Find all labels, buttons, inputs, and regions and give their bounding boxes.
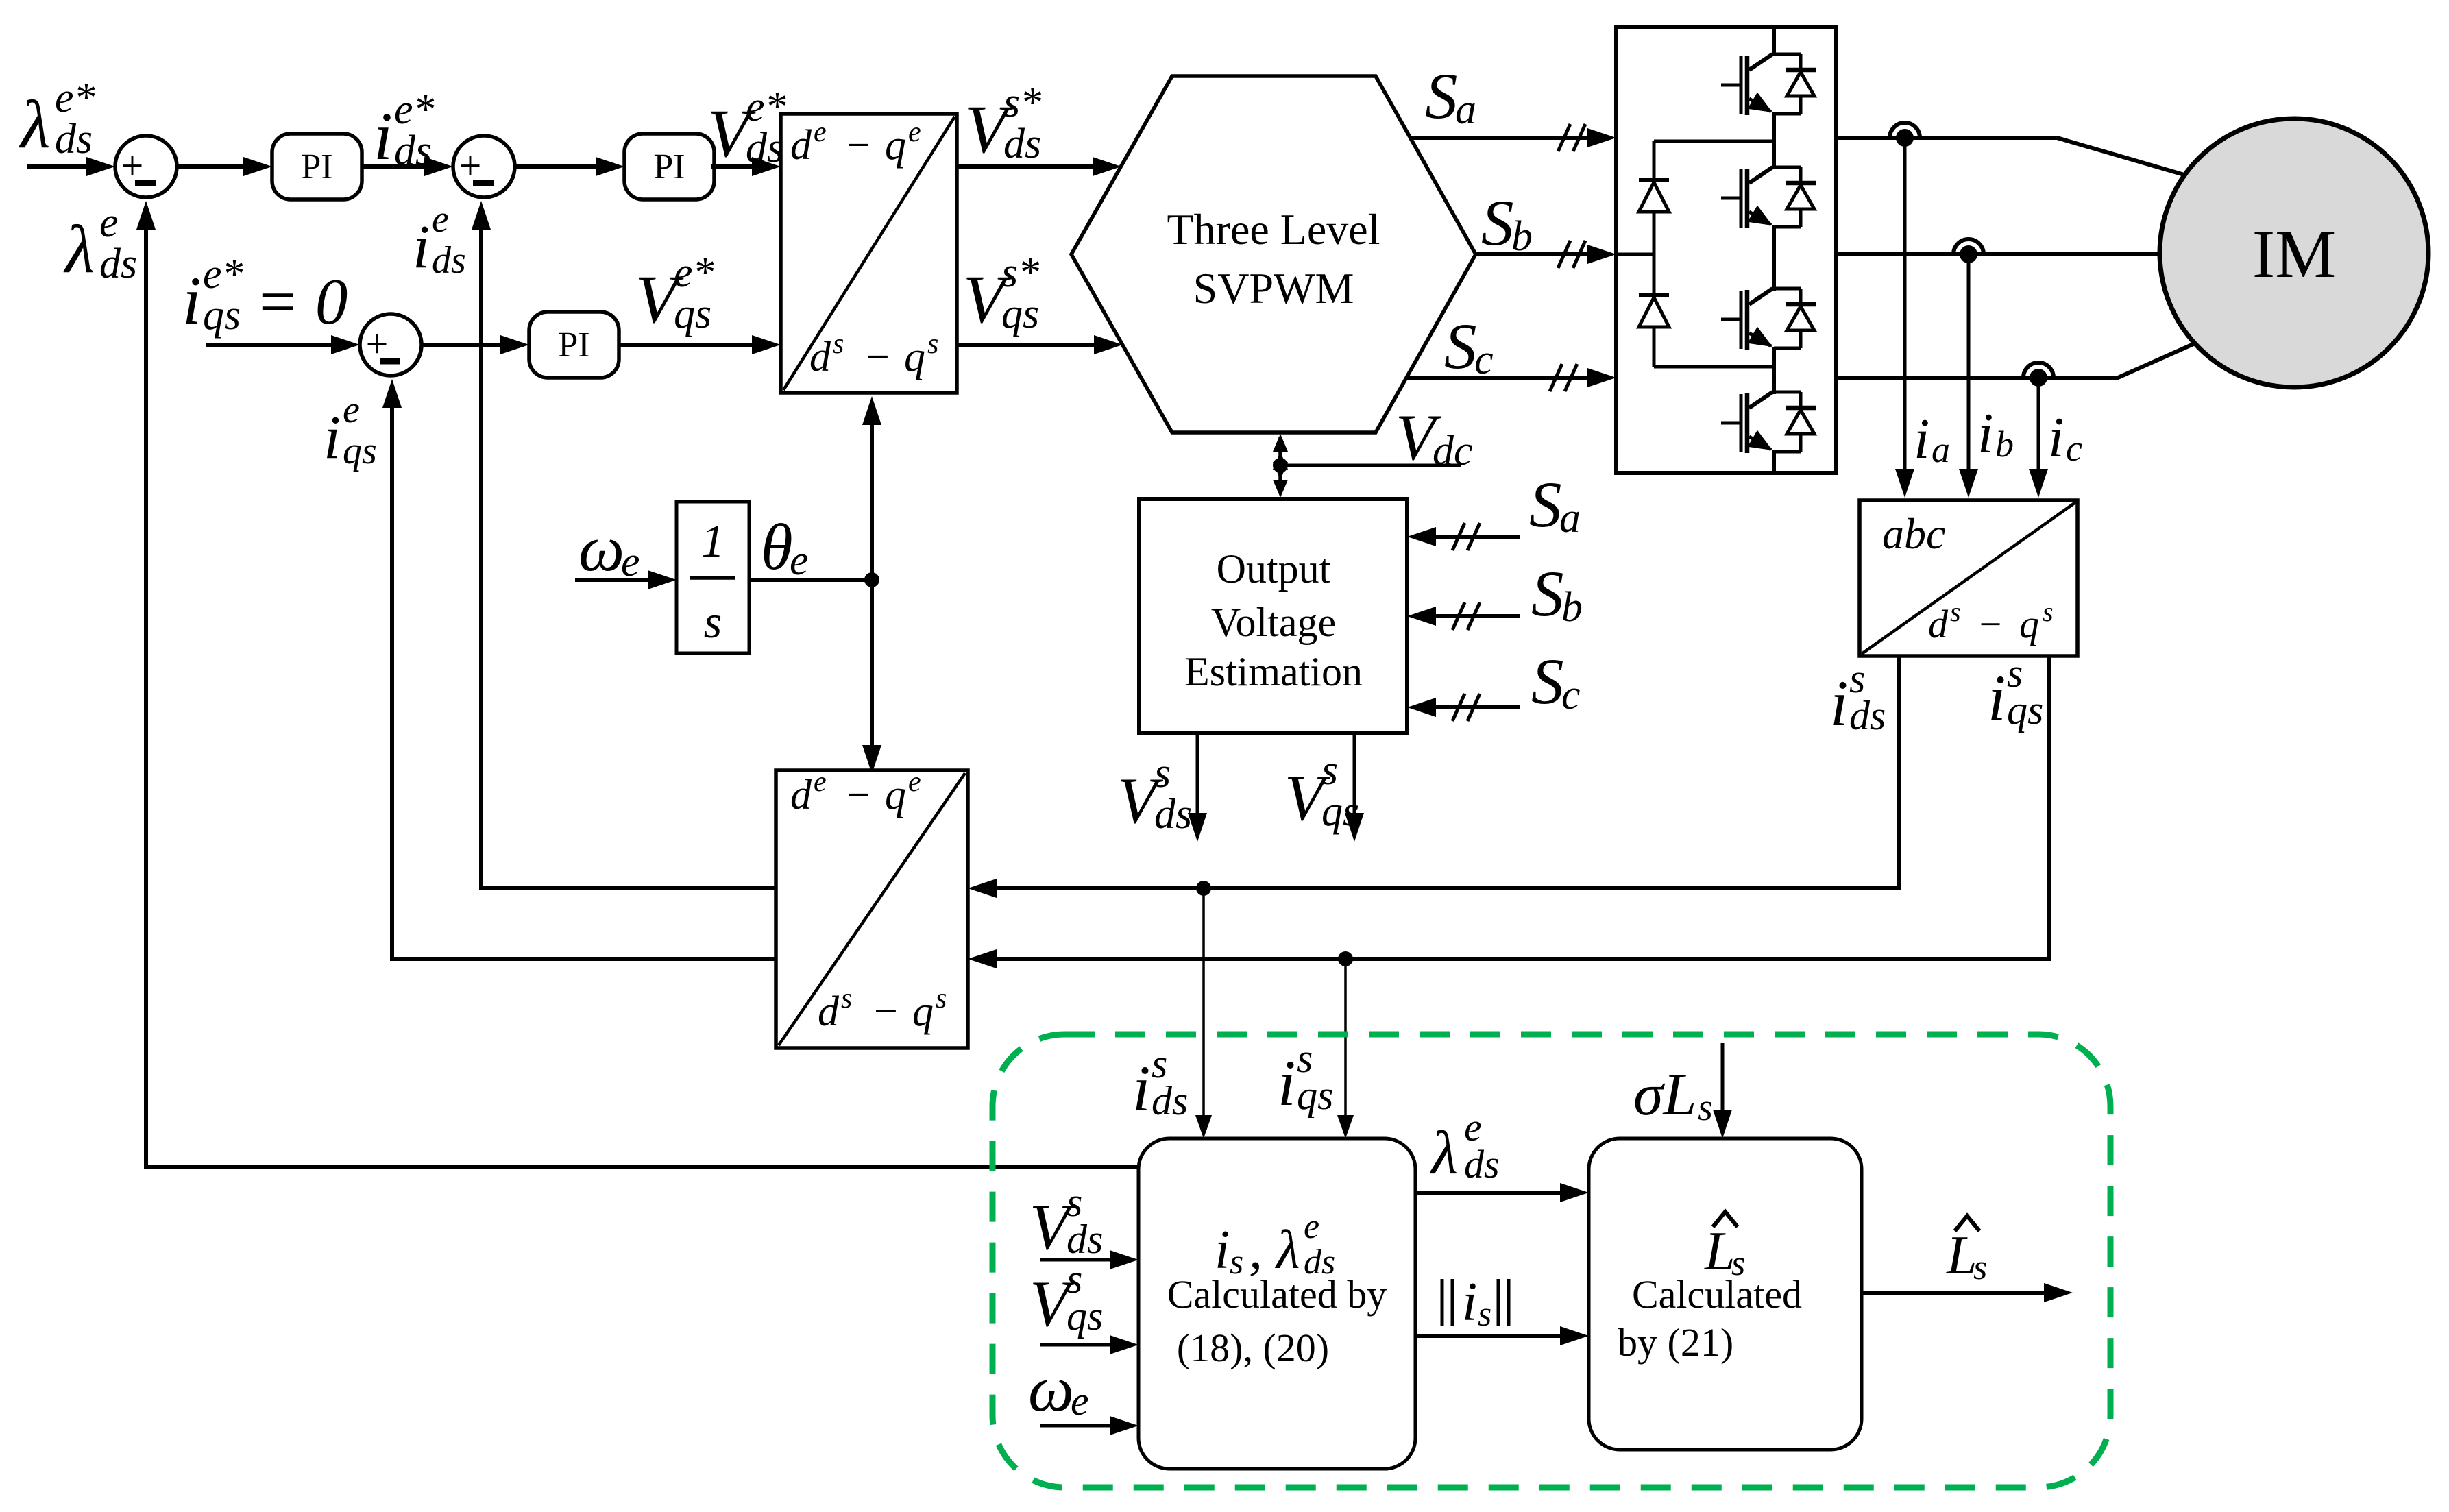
label L_s hat output <box>1946 1216 1987 1287</box>
svg-text:qs: qs <box>1297 1073 1333 1118</box>
current sensor ring phase a <box>1890 123 1920 147</box>
IGBT Q2 with freewheel diode D2 <box>1721 167 1816 228</box>
clamp bottom wire <box>1654 365 1774 369</box>
wire omega_e calc input <box>1040 1416 1138 1435</box>
svg-text:e: e <box>790 537 809 584</box>
label i_a <box>1914 407 1950 471</box>
svg-text:i: i <box>1278 1047 1295 1119</box>
svg-text:i: i <box>324 404 341 472</box>
wire S_a gate signal to inverter <box>1410 124 1616 151</box>
svg-text:= 0: = 0 <box>255 265 348 338</box>
svg-text:q: q <box>912 988 934 1035</box>
svg-text:s: s <box>1973 1248 1987 1287</box>
label i_c <box>2048 406 2082 470</box>
current sensor ring phase c <box>2023 363 2054 387</box>
svg-text:λ: λ <box>1429 1119 1458 1187</box>
label lambda_ds^e output of B1 <box>1429 1105 1500 1187</box>
wire i_ds^s tap to estimator block <box>1195 888 1212 1138</box>
PI controller PI1 <box>272 134 362 199</box>
svg-text:e*: e* <box>674 249 714 296</box>
wire input lambda_ds^e* reference <box>27 157 115 176</box>
svg-text:s: s <box>936 983 947 1014</box>
label sigma L_s <box>1633 1062 1713 1129</box>
wire PI3 to transform block T1 <box>618 335 781 354</box>
svg-text:λ: λ <box>63 211 95 287</box>
svg-text:S: S <box>1481 186 1514 259</box>
svg-text:i: i <box>2048 406 2064 470</box>
svg-text:d: d <box>809 334 831 380</box>
label V_ds^s estimator output <box>1117 750 1192 838</box>
svg-text:σL: σL <box>1633 1062 1696 1128</box>
svg-text:dc: dc <box>1433 428 1473 474</box>
svg-text:qs: qs <box>1001 291 1039 337</box>
label lambda_ds^e* <box>19 75 95 162</box>
svg-text:i: i <box>1215 1220 1230 1280</box>
label i_qs^e* = 0 <box>182 251 348 339</box>
phase c line to motor <box>1836 330 2224 378</box>
label omega_e calc input <box>1028 1352 1089 1425</box>
label i_qs^s into calc block <box>1278 1036 1333 1119</box>
wire S_a to estimator <box>1407 523 1520 550</box>
label S_c output of SVPWM <box>1444 310 1494 383</box>
svg-text:a: a <box>1559 495 1581 541</box>
svg-text:Calculated: Calculated <box>1632 1272 1802 1317</box>
svg-text:Estimation: Estimation <box>1184 649 1363 694</box>
svg-text:i: i <box>1914 407 1929 471</box>
inverter outer box <box>1616 27 1836 473</box>
label i_qs^s <box>1988 650 2043 734</box>
inverter DC bus top segment <box>1772 27 1776 56</box>
IGBT Q4 with freewheel diode D4 <box>1721 392 1816 453</box>
svg-text:q: q <box>885 772 906 818</box>
summing junction S3 <box>360 314 422 376</box>
svg-text:b: b <box>1995 424 2014 465</box>
svg-text:PI: PI <box>558 326 589 365</box>
svg-text:Three Level: Three Level <box>1167 205 1380 254</box>
clamp top wire <box>1654 140 1774 143</box>
svg-text:PI: PI <box>301 147 332 186</box>
svg-text:, λ: , λ <box>1249 1220 1300 1280</box>
svg-text:q: q <box>904 334 925 380</box>
neutral stub to box edge <box>1616 253 1654 256</box>
svg-text:i: i <box>1132 1052 1150 1125</box>
svg-text:e*: e* <box>394 86 435 133</box>
label i_ds^e <box>413 198 466 282</box>
svg-text:q: q <box>2019 602 2039 646</box>
svg-text:d: d <box>790 122 812 169</box>
svg-text:s: s <box>704 596 722 648</box>
wire i_qs^s feedback to T2 <box>968 656 2049 968</box>
svg-text:λ: λ <box>19 86 50 162</box>
svg-text:SVPWM: SVPWM <box>1193 264 1354 313</box>
wire input i_qs^e* to S3 <box>206 335 360 354</box>
svg-text:by (21): by (21) <box>1618 1320 1733 1365</box>
svg-text:qs: qs <box>674 291 711 337</box>
label V_ds^e* <box>707 84 786 171</box>
svg-text:ds: ds <box>1152 1078 1188 1123</box>
svg-text:d: d <box>818 988 840 1035</box>
junction theta_e <box>864 572 879 587</box>
svg-text:−: − <box>1977 602 2003 646</box>
wire S_c to estimator <box>1407 694 1520 721</box>
label V_ds^s calc input <box>1029 1180 1103 1263</box>
clamp chain mid segment <box>1653 254 1656 295</box>
svg-text:s: s <box>1154 750 1171 796</box>
svg-text:S: S <box>1531 557 1564 630</box>
phase b line to motor <box>1836 252 2228 256</box>
wire i_qs^s tap to estimator block <box>1337 959 1354 1138</box>
wire theta_e down to T2 <box>862 580 881 774</box>
wire S_c gate signal to inverter <box>1406 364 1616 391</box>
IGBT Q3 with freewheel diode D3 <box>1721 289 1816 350</box>
integrator block 1/s <box>677 502 749 653</box>
wire omega_e to integrator <box>575 570 677 589</box>
svg-text:ds: ds <box>1154 791 1192 838</box>
svg-text:S: S <box>1425 60 1458 132</box>
svg-text:ω: ω <box>578 512 624 585</box>
bus segment Q2-Q3 <box>1772 225 1776 291</box>
svg-text:abc: abc <box>1882 509 1945 558</box>
wire norm i_s B1 to B2 <box>1415 1326 1589 1345</box>
svg-text:(18), (20): (18), (20) <box>1177 1326 1329 1370</box>
wire S_b to estimator <box>1407 602 1520 630</box>
label theta_e <box>761 511 809 584</box>
svg-text:i: i <box>374 98 393 174</box>
svg-text:S: S <box>1531 645 1564 718</box>
svg-text:ds: ds <box>1464 1142 1500 1186</box>
svg-text:−: − <box>871 988 900 1035</box>
svg-text:s*: s* <box>1003 80 1041 126</box>
svg-text:S: S <box>1444 310 1477 382</box>
svg-text:q: q <box>885 122 906 169</box>
label i_ds^s <box>1830 656 1886 740</box>
svg-text:ω: ω <box>1028 1352 1074 1425</box>
wire i_ds^s feedback to T2 <box>968 656 1899 898</box>
svg-text:c: c <box>2066 428 2082 469</box>
wire sigma L_s input <box>1713 1043 1732 1138</box>
label S_c estimator input <box>1531 645 1581 718</box>
wire T1 to SVPWM d-axis <box>957 157 1121 176</box>
svg-text:−: − <box>863 334 892 380</box>
svg-text:d: d <box>1928 602 1949 646</box>
summing junction S2 <box>453 136 515 197</box>
label V_ds^s* <box>965 80 1041 167</box>
svg-text:ds: ds <box>1003 121 1041 167</box>
clamp diode D6 <box>1639 295 1669 367</box>
svg-text:e: e <box>908 766 921 798</box>
label i_ds^s into calc block <box>1132 1041 1188 1125</box>
bus segment Q3-Q4 <box>1772 347 1776 394</box>
wire S3 to PI3 <box>422 335 529 354</box>
svg-text:e: e <box>1071 1378 1089 1424</box>
wire i_a measurement <box>1895 138 1914 498</box>
svg-text:i: i <box>1462 1272 1477 1332</box>
label V_qs^s calc input <box>1029 1256 1103 1340</box>
svg-text:qs: qs <box>203 292 241 339</box>
summing junction S1 <box>115 136 177 197</box>
svg-text:e: e <box>908 117 921 148</box>
label norm of i_s <box>1442 1272 1509 1334</box>
wire PI2 to transform block T1 <box>711 157 781 176</box>
svg-text:e*: e* <box>55 75 95 121</box>
svg-text:e: e <box>99 199 119 246</box>
svg-text:ds: ds <box>99 241 137 287</box>
svg-text:Output: Output <box>1217 546 1331 592</box>
svg-text:ds: ds <box>55 116 93 162</box>
svg-text:e*: e* <box>203 251 243 297</box>
current sensor ring phase b <box>1953 239 1984 263</box>
svg-text:s*: s* <box>1001 249 1039 296</box>
svg-text:qs: qs <box>2007 687 2043 733</box>
svg-text:i: i <box>182 263 202 339</box>
phase a line to motor <box>1836 138 2224 186</box>
svg-text:c: c <box>1561 672 1581 718</box>
junction V_dc <box>1273 458 1288 473</box>
svg-text:θ: θ <box>761 511 793 583</box>
label i_qs^e <box>324 389 377 472</box>
wire theta_e to junction <box>749 578 872 582</box>
IGBT Q1 with freewheel diode D1 <box>1721 54 1816 115</box>
label S_a estimator input <box>1529 468 1581 541</box>
svg-text:i: i <box>1988 661 2006 734</box>
wire i_c measurement <box>2029 378 2048 498</box>
svg-text:PI: PI <box>653 147 685 186</box>
transform block T3 abc to ds-qs <box>1860 500 2078 656</box>
wire S_b gate signal to inverter <box>1476 241 1616 268</box>
svg-text:1: 1 <box>701 515 724 567</box>
svg-text:S: S <box>1529 468 1562 541</box>
svg-text:e: e <box>1304 1207 1319 1246</box>
wire theta_e up to T1 <box>862 396 881 580</box>
clamp diode D5 <box>1639 180 1669 254</box>
label V_qs^s* <box>963 249 1039 337</box>
svg-text:s: s <box>927 328 938 360</box>
svg-text:Calculated by: Calculated by <box>1167 1272 1387 1317</box>
svg-text:s: s <box>1698 1086 1713 1129</box>
wire i_b measurement <box>1959 254 1978 498</box>
green dashed boundary of Ls estimation <box>992 1034 2110 1487</box>
wire V_qs^s calc input <box>1040 1335 1138 1354</box>
svg-text:qs: qs <box>343 430 377 472</box>
svg-text:e: e <box>432 198 449 241</box>
svg-text:IM: IM <box>2252 216 2336 292</box>
label i_ds^e* <box>374 86 435 174</box>
bus segment Q1-Q2 <box>1772 112 1776 169</box>
svg-text:qs: qs <box>1067 1293 1103 1339</box>
svg-text:e: e <box>343 389 360 431</box>
V_dc double arrow between SVPWM and estimator <box>1273 434 1288 498</box>
wire lambda_ds^e B1 to B2 <box>1415 1183 1589 1202</box>
svg-text:L: L <box>1946 1226 1977 1286</box>
junction i_qs^s tap <box>1338 951 1353 966</box>
junction i_ds^s tap <box>1196 881 1211 896</box>
transform block T2 de-qe to ds-qs <box>776 766 968 1048</box>
label lambda_ds^e feedback <box>63 199 137 287</box>
PI controller PI2 <box>624 134 714 199</box>
wire V_ds^s calc input <box>1040 1250 1138 1269</box>
label V_dc <box>1396 401 1473 474</box>
induction motor IM <box>2160 119 2428 387</box>
wire L_s hat output <box>1862 1283 2073 1302</box>
svg-text:ds: ds <box>1849 693 1886 738</box>
svg-text:a: a <box>1932 429 1950 470</box>
svg-text:e: e <box>814 117 827 148</box>
wire S2 to PI2 <box>515 157 624 176</box>
svg-text:d: d <box>790 772 812 818</box>
svg-text:−: − <box>844 772 873 818</box>
label S_b output of SVPWM <box>1481 186 1533 260</box>
wire PI1 to S2 <box>362 157 453 176</box>
label i_b <box>1977 402 2014 465</box>
label omega_e input <box>578 512 640 585</box>
svg-text:−: − <box>844 122 873 169</box>
clamp chain upper segment <box>1653 141 1656 180</box>
svg-text:s: s <box>1478 1295 1491 1334</box>
label S_b estimator input <box>1531 557 1583 631</box>
svg-text:s: s <box>833 328 844 360</box>
svg-text:s: s <box>1950 596 1961 627</box>
wire V_qs^s estimator output <box>1345 733 1364 842</box>
svg-text:i: i <box>1830 667 1848 740</box>
svg-text:ds: ds <box>432 239 466 282</box>
svg-text:i: i <box>413 213 430 281</box>
svg-text:s: s <box>2043 596 2054 627</box>
wire i_ds^e feedback to S2 <box>472 201 776 888</box>
PI controller PI3 <box>529 312 619 378</box>
wire V_ds^s estimator output <box>1188 733 1207 842</box>
label V_qs^s estimator output <box>1284 747 1359 835</box>
svg-text:s: s <box>841 983 852 1014</box>
bus segment Q4 to box bottom <box>1772 450 1776 473</box>
svg-text:s: s <box>1321 747 1338 794</box>
wire i_qs^e feedback to S3 <box>382 379 776 959</box>
svg-text:a: a <box>1455 86 1476 133</box>
hexagon block Three Level SVPWM <box>1071 76 1476 432</box>
svg-text:Voltage: Voltage <box>1211 600 1336 645</box>
svg-text:i: i <box>1977 402 1993 465</box>
svg-text:b: b <box>1561 584 1583 631</box>
svg-text:e: e <box>814 766 827 798</box>
calc block B2 (21) <box>1589 1138 1862 1450</box>
wire T1 to SVPWM q-axis <box>957 335 1123 354</box>
label S_a output of SVPWM <box>1425 60 1476 133</box>
block Output Voltage Estimation <box>1139 499 1407 733</box>
label V_qs^e* <box>635 249 714 337</box>
wire lambda_ds^e feedback to S1 <box>136 201 1138 1167</box>
transform block T1 de-qe to ds-qs <box>781 114 957 393</box>
calc block B1 (18)(20) <box>1138 1138 1415 1469</box>
wire S1 to PI1 <box>177 157 272 176</box>
wire V_dc measurement line <box>1280 464 1461 467</box>
svg-text:ds: ds <box>1067 1217 1103 1262</box>
